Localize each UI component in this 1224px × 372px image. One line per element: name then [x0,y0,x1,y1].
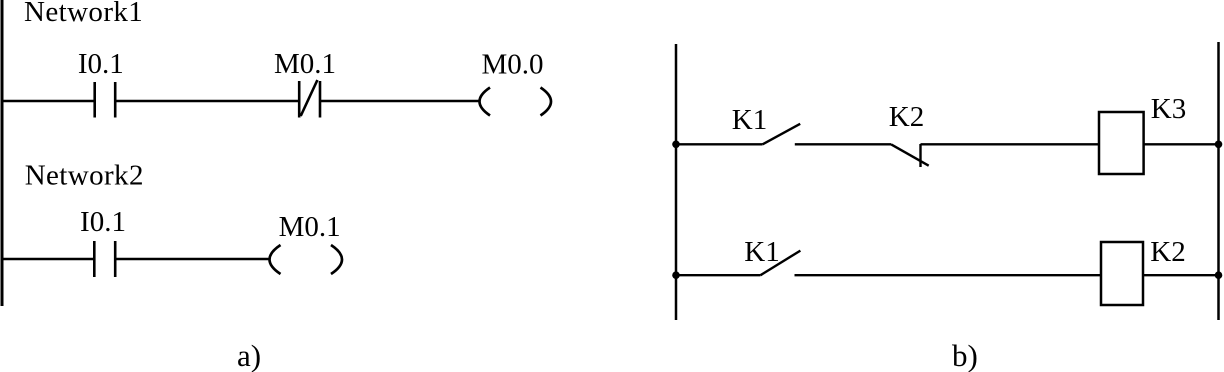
svg-text:K1: K1 [732,104,767,136]
wire rung1 segment from rail to contact I0.1 [2,100,94,102]
svg-text:K2: K2 [1150,236,1185,268]
node junction dot bottom-right [1215,271,1223,279]
wire top rung from K1 to K2 [795,143,891,145]
wire rung1 segment from I0.1 to M0.1 [115,100,299,102]
coil M0.0 [480,88,552,116]
svg-text:K2: K2 [889,101,924,133]
svg-text:M0.0: M0.0 [481,48,543,80]
coil M0.1 [270,245,343,274]
node junction dot top-right [1215,141,1223,149]
svg-text:Network2: Network2 [25,160,144,192]
contact I0.1 (rung2, normally open) [94,241,115,277]
wire rung2 segment from I0.1 to coil M0.1 [115,258,268,260]
svg-text:b): b) [952,338,978,372]
contact K2 top (normally closed switch) [891,144,929,167]
wire rung2 segment from rail to contact I0.1 [2,258,94,260]
svg-text:K3: K3 [1151,93,1186,125]
wire bottom rung from K1 to coil K2 [795,274,1102,276]
coil K3 (relay coil rectangle) [1099,112,1144,174]
contact M0.1 (normally closed) [299,80,320,118]
svg-text:I0.1: I0.1 [78,48,124,80]
node junction dot bottom-left [672,271,680,279]
wire top rung from K2 to coil K3 [921,143,1100,145]
svg-text:a): a) [237,338,261,372]
wire bottom rung from K2 to right rail [1143,274,1219,276]
wire bottom rung from left rail to K1 [676,274,761,276]
svg-text:M0.1: M0.1 [279,211,341,243]
wire top rung from K3 to right rail [1144,143,1219,145]
wire rung1 segment from M0.1 to coil M0.0 [320,100,479,102]
contact I0.1 (normally open) [95,82,116,118]
left rail (relay diagram b) [675,44,678,320]
svg-text:K1: K1 [744,236,779,268]
node junction dot top-left [672,141,680,149]
contact K1 bottom (normally open switch blade) [761,251,801,276]
wire top rung from left rail to K1 [676,143,763,145]
right rail (relay diagram b) [1217,42,1220,320]
coil K2 (relay coil rectangle) [1101,242,1143,305]
svg-text:M0.1: M0.1 [274,48,336,80]
svg-text:Network1: Network1 [24,0,143,28]
contact K1 top (normally open switch blade) [763,124,801,145]
left power rail (ladder diagram a) [1,0,4,306]
svg-text:I0.1: I0.1 [80,206,126,238]
